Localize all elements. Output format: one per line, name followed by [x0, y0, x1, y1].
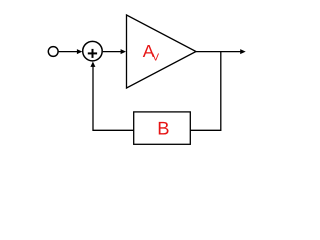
svg-text:V: V	[152, 53, 159, 64]
output wire	[196, 51, 241, 53]
output arrowhead	[240, 49, 246, 54]
feedback wire right (down then left)	[190, 52, 221, 131]
input node circle	[48, 47, 58, 57]
svg-text:B: B	[157, 118, 169, 139]
wire input to summing junction	[59, 51, 78, 53]
op-amp triangle Av	[127, 15, 197, 88]
feedback block B	[134, 112, 191, 144]
wire summing junction to amplifier	[103, 51, 122, 53]
arrowhead into amplifier	[121, 49, 126, 54]
arrowhead into summing junction	[77, 49, 82, 54]
arrowhead into summing junction bottom	[90, 62, 95, 67]
feedback wire left (left then up)	[93, 66, 134, 130]
plus sign	[88, 49, 97, 58]
summing junction circle	[83, 41, 103, 61]
